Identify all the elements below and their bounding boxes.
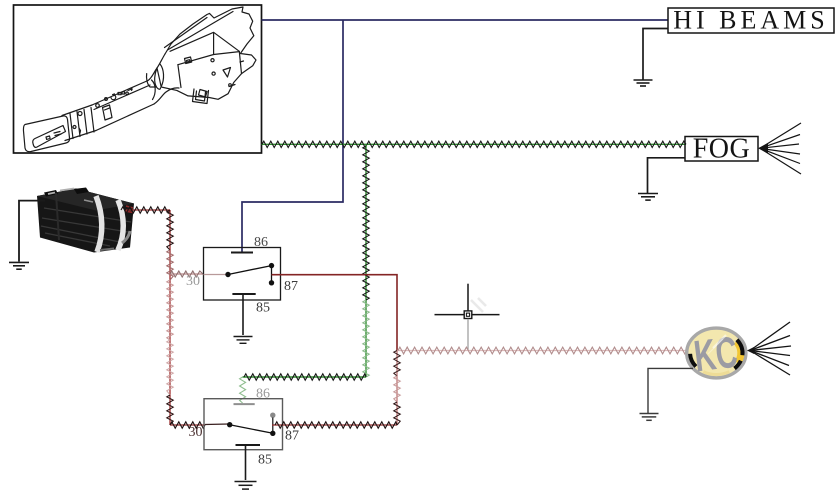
wire: green/black striped fog feed from stalk to FOG lamp <box>262 141 687 147</box>
relay K1 common contact node (pin 30) <box>225 272 230 277</box>
fog lamp light rays <box>758 123 801 174</box>
relay K1 coil bar pin 86 <box>231 252 253 254</box>
pin label 86 (K2) <box>256 387 270 402</box>
pin label 30 (K1) <box>186 274 200 289</box>
relay K2 pin 30 lead inside body <box>205 423 229 426</box>
wire: blue branch down to relay K1 pin 86 <box>242 20 343 252</box>
wire: green drop into relay K2 pin 86 <box>240 377 246 403</box>
wire: +12V branch into relay K1 pin 30 <box>170 271 203 277</box>
relay K2 body <box>204 399 283 450</box>
KC lamp light rays <box>747 322 791 375</box>
svg-text:87: 87 <box>284 279 298 294</box>
svg-text:86: 86 <box>254 235 268 250</box>
pin label 30 (K2) <box>189 425 203 440</box>
wire: battery +12V red feed (horizontal) <box>121 207 170 213</box>
pin label 86 (K1) <box>254 235 268 250</box>
svg-text:85: 85 <box>258 453 272 468</box>
wire: KC lamp ground lead <box>648 368 693 413</box>
relay K1 coil bar pin 85 <box>232 293 255 295</box>
wire: relay K2 ground lead (85) <box>245 445 247 480</box>
pin label 85 (K1) <box>256 301 270 316</box>
lamp: FOG <box>685 134 758 165</box>
svg-text:85: 85 <box>256 301 270 316</box>
lamp: KC driving light <box>687 328 746 382</box>
pin label 87 (K1) <box>284 279 298 294</box>
pin label 87 (K2) <box>285 429 299 444</box>
wire: +12V red feed vertical bus to relays <box>167 210 173 425</box>
relay K2 common contact node (pin 30) <box>227 422 232 427</box>
svg-text:86: 86 <box>256 387 270 402</box>
ground: FOG <box>638 194 658 201</box>
wire: HI BEAMS ground lead <box>643 29 668 80</box>
ground: KC lamp <box>640 414 659 421</box>
faint watermark trace <box>471 298 486 312</box>
wire: blue high-beam signal from stalk to HI BEAMS lamp <box>262 19 669 21</box>
relay K1 armature <box>228 266 272 275</box>
lamp: HI BEAMS <box>668 6 834 35</box>
wire: grey stub from cursor to KC feed <box>467 319 469 350</box>
ground: relay K2 <box>235 482 257 490</box>
relay K2 pin 87 stem <box>272 418 274 434</box>
relay K2 armature <box>230 425 273 434</box>
wire: +12V branch into relay K2 pin 30 <box>170 422 205 428</box>
relay K1 pin 87 stem <box>271 266 273 283</box>
relay K2 pin 87 node <box>270 431 275 436</box>
wire: relay K1 pin 87 output, solid red to junction <box>272 275 398 351</box>
pin label 85 (K2) <box>258 453 272 468</box>
ground: HI BEAMS <box>634 80 653 86</box>
svg-text:HI BEAMS: HI BEAMS <box>673 6 829 35</box>
ground: battery <box>9 262 29 269</box>
wire: relay K1 ground lead (85) <box>242 294 244 335</box>
relay K2 upper contact node (grey) <box>270 413 275 418</box>
svg-text:FOG: FOG <box>693 134 751 165</box>
relay K2 coil bar pin 85 <box>236 444 261 446</box>
relay K1 upper contact node <box>269 263 274 268</box>
combination switch stalk (turn-signal lever drawing) <box>23 7 256 152</box>
svg-text:30: 30 <box>189 425 203 440</box>
relay K1 pin 87 node <box>269 280 274 285</box>
relay K2 coil bar pin 86 <box>234 403 255 405</box>
relay K1 pin 30 lead inside body <box>204 274 229 276</box>
ground: relay K1 <box>234 337 253 344</box>
wire: white/red striped feed to KC lamp <box>397 347 687 354</box>
wire: relay K2 pin 87 output red/black zigzag <box>272 422 397 428</box>
svg-text:KC: KC <box>691 328 740 382</box>
wire: green branch horizontal into relay K2 area <box>243 374 366 380</box>
battery BAT (12V, photo-style) <box>37 188 134 253</box>
relay K1 body <box>204 248 281 301</box>
svg-text:87: 87 <box>285 429 299 444</box>
CAD crosshair cursor <box>435 284 500 319</box>
wire: green branch down (vertical) toward relay K2 <box>363 144 369 377</box>
svg-text:30: 30 <box>186 274 200 289</box>
wire: battery negative lead to ground <box>19 201 45 262</box>
wire: vertical link junction to relay K2 output <box>394 351 400 426</box>
wire: FOG ground lead <box>648 158 686 193</box>
combination switch enclosure box <box>14 5 262 153</box>
